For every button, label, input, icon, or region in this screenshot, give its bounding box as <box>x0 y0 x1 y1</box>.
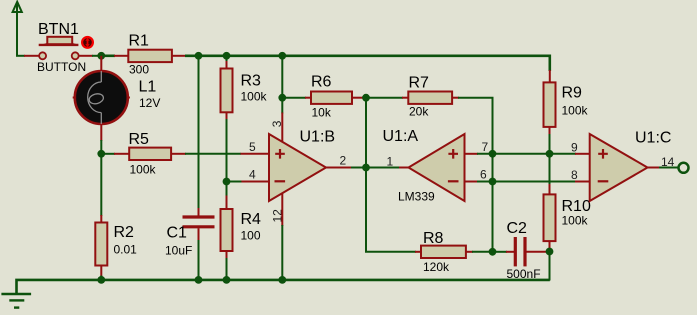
svg-text:2: 2 <box>340 153 347 167</box>
svg-text:C2: C2 <box>507 220 528 237</box>
svg-text:0.01: 0.01 <box>114 243 138 257</box>
node R2 bottom <box>97 276 105 284</box>
wire U1:C output <box>648 167 679 169</box>
svg-text:7: 7 <box>482 140 489 154</box>
node pin3 column top junction <box>278 52 286 60</box>
svg-text:R8: R8 <box>423 230 444 247</box>
wire R8 row <box>415 251 493 253</box>
node R5 junction <box>97 150 105 158</box>
wire pin3 column <box>281 56 283 144</box>
svg-text:100k: 100k <box>130 162 157 176</box>
svg-text:C1: C1 <box>167 225 188 242</box>
svg-text:R4: R4 <box>241 211 262 228</box>
svg-text:4: 4 <box>249 167 256 181</box>
op-amp U1:C <box>590 134 648 201</box>
svg-text:R9: R9 <box>562 85 583 102</box>
svg-text:10uF: 10uF <box>165 243 192 257</box>
node R6/R7 junction <box>362 94 370 102</box>
svg-text:U1:C: U1:C <box>635 129 671 146</box>
terminal pin 14 <box>679 163 689 173</box>
node output row junction <box>362 164 370 172</box>
wire pin4 row <box>227 181 270 183</box>
svg-text:12V: 12V <box>139 96 160 110</box>
svg-text:300: 300 <box>129 63 149 77</box>
pushbutton BTN1 <box>39 37 79 60</box>
svg-text:100k: 100k <box>562 214 589 228</box>
svg-text:10k: 10k <box>312 105 332 119</box>
wire pin6 row <box>465 181 591 183</box>
node R1 right junction <box>195 52 203 60</box>
svg-text:U1:B: U1:B <box>300 128 336 145</box>
wire C2 pins <box>493 251 550 253</box>
node R8/C2 junction <box>489 248 497 256</box>
svg-text:20k: 20k <box>409 104 429 118</box>
wire R3/R4 column <box>226 56 228 281</box>
wire R9/R10 column <box>549 70 551 281</box>
svg-text:1: 1 <box>387 154 394 168</box>
svg-text:L1: L1 <box>139 79 157 96</box>
svg-text:120k: 120k <box>423 260 450 274</box>
wire pin12 column <box>281 193 283 281</box>
wire R6 row <box>282 97 366 99</box>
svg-text:R10: R10 <box>562 198 591 215</box>
wire lamp bottom pin <box>100 124 102 155</box>
node R9 bottom junction <box>546 150 554 158</box>
svg-text:5: 5 <box>249 140 256 154</box>
resistor R4 <box>221 209 233 251</box>
node pin4 row junction <box>223 178 231 186</box>
wire U1:B output to U1:A output <box>326 167 409 169</box>
svg-text:100k: 100k <box>562 103 589 117</box>
node R6 left junction <box>278 94 286 102</box>
wire top rail <box>101 56 550 71</box>
wire R7 row <box>366 98 493 155</box>
svg-text:100k: 100k <box>241 89 268 103</box>
wire bottom rail <box>17 280 550 294</box>
resistor R8 <box>421 246 466 258</box>
wire pin7 row <box>465 153 591 155</box>
svg-text:R2: R2 <box>114 224 135 241</box>
resistor R2 <box>95 223 107 266</box>
node C1 bottom <box>195 276 203 284</box>
wire C1 column <box>198 56 200 281</box>
resistor R1 <box>128 50 172 62</box>
node R4 bottom <box>223 276 231 284</box>
power arrow <box>13 2 22 56</box>
wire button right pin <box>79 55 102 57</box>
button actuator indicator <box>82 37 93 48</box>
resistor R6 <box>311 92 352 104</box>
ground <box>1 294 31 308</box>
node pin6 junction <box>489 178 497 186</box>
op-amp U1:B <box>269 134 326 201</box>
wire lamp top pin <box>100 56 102 71</box>
svg-text:R5: R5 <box>129 131 150 148</box>
svg-text:BUTTON: BUTTON <box>37 60 86 74</box>
svg-text:3: 3 <box>270 120 284 127</box>
svg-text:R1: R1 <box>129 32 150 49</box>
svg-text:U1:A: U1:A <box>383 128 419 145</box>
wire right column pins 7-6-R8 <box>492 154 494 252</box>
svg-text:100: 100 <box>241 228 261 242</box>
op-amp U1:A (mirrored) <box>409 134 465 201</box>
node pin7 junction <box>489 150 497 158</box>
node pin12 bottom <box>278 276 286 284</box>
node R10 bottom junction <box>546 248 554 256</box>
lamp L1 <box>73 71 130 124</box>
wire mid column (R6/R7 to output row to R8) <box>366 98 416 252</box>
svg-text:R3: R3 <box>241 72 262 89</box>
capacitor C2 <box>515 237 525 266</box>
resistor R5 <box>129 148 171 160</box>
resistor R7 <box>408 92 452 104</box>
wire R2 column <box>100 154 102 281</box>
svg-text:BTN1: BTN1 <box>38 21 79 38</box>
wire R5 row <box>101 153 269 155</box>
svg-text:R6: R6 <box>311 74 332 91</box>
node top rail / lamp junction <box>97 52 105 60</box>
resistor R10 <box>544 194 556 241</box>
wire button left pin <box>16 55 39 57</box>
resistor R9 <box>544 82 556 127</box>
svg-text:9: 9 <box>571 140 578 154</box>
capacitor C1 <box>183 217 215 227</box>
svg-text:8: 8 <box>571 168 578 182</box>
svg-text:R7: R7 <box>409 74 430 91</box>
node R3 top junction <box>223 52 231 60</box>
svg-text:LM339: LM339 <box>398 189 435 203</box>
svg-text:6: 6 <box>480 167 487 181</box>
resistor R3 <box>221 69 233 113</box>
